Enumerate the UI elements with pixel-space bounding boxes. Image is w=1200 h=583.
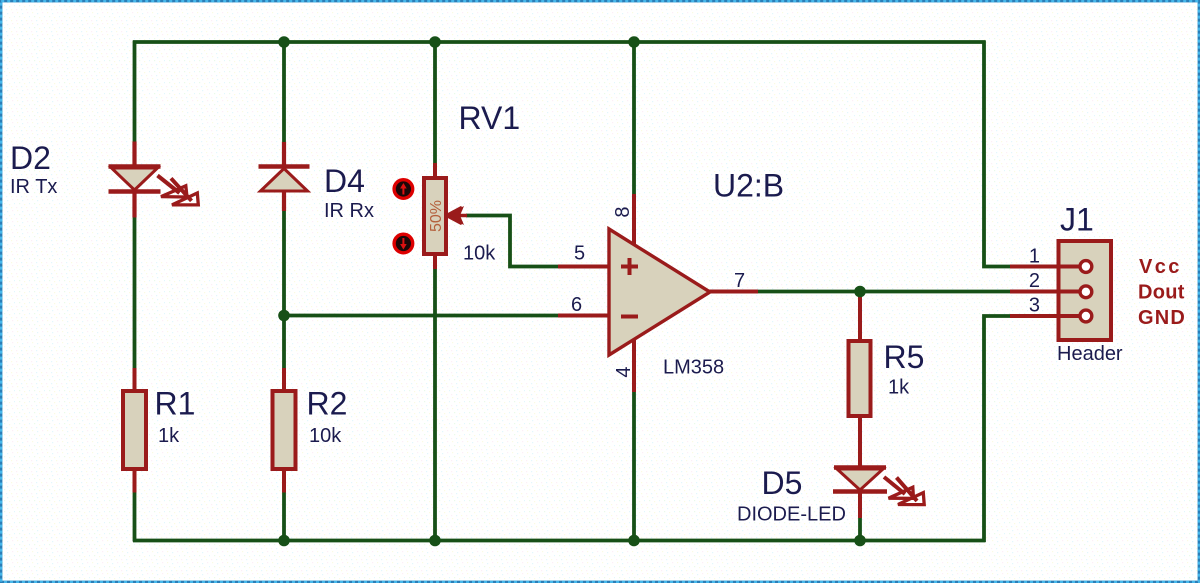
wire: RV1 column <box>433 42 437 541</box>
RV1 decrement button <box>394 234 413 253</box>
potentiometer RV1 <box>424 178 446 254</box>
wire: D4/R2 column <box>282 42 286 541</box>
svg-text:D4: D4 <box>324 163 365 199</box>
wire: op-amp pin 4 red stub <box>632 338 636 392</box>
svg-text:U2:B: U2:B <box>713 168 784 204</box>
wire: top supply rail <box>133 40 986 44</box>
svg-text:J1: J1 <box>1060 202 1094 238</box>
svg-text:8: 8 <box>612 206 634 217</box>
svg-text:R2: R2 <box>307 386 348 422</box>
LED D2 (IR Tx) <box>109 167 199 205</box>
svg-text:1: 1 <box>1029 246 1040 268</box>
svg-text:D2: D2 <box>10 140 51 176</box>
wire: RV1 wiper to pin 5 <box>466 216 560 267</box>
svg-text:6: 6 <box>571 294 582 316</box>
header J1 <box>1058 241 1111 340</box>
wire: header pin 3 red stub <box>1010 314 1060 318</box>
wire: header pin 2 red stub <box>1010 290 1060 294</box>
resistor R1 <box>123 391 146 469</box>
svg-text:RV1: RV1 <box>459 100 521 136</box>
RV1 wiper arrow <box>446 206 467 225</box>
svg-text:GND: GND <box>1138 307 1186 329</box>
svg-text:IR Tx: IR Tx <box>10 176 57 198</box>
wire: R1 red pin stubs <box>133 368 137 493</box>
resistor R5 <box>849 341 871 416</box>
svg-text:7: 7 <box>734 270 745 292</box>
node: top rail / D4 column <box>278 36 290 48</box>
wire: D2 red pin stubs <box>132 142 136 218</box>
wire: right rail upper segment (Vcc) <box>984 41 1010 267</box>
node: top rail / RV1 column <box>429 36 441 48</box>
svg-text:50%: 50% <box>428 200 445 232</box>
wire: D5 bottom red stub <box>858 491 862 518</box>
node: bottom rail / R2 column <box>278 535 290 547</box>
resistor R2 <box>273 391 296 469</box>
svg-text:Vcc: Vcc <box>1139 256 1182 278</box>
LED D5 (DIODE-LED) <box>833 468 924 505</box>
op-amp U2:B <box>609 229 710 355</box>
node: bottom rail / RV1 column <box>429 535 441 547</box>
svg-text:R5: R5 <box>884 339 925 375</box>
svg-text:1k: 1k <box>888 377 910 399</box>
wire: op-amp pin8/pin4 column <box>632 42 636 541</box>
svg-text:5: 5 <box>574 243 585 265</box>
wire: op-amp pin 8 red stub <box>632 194 636 246</box>
wire: op-amp output red stub (pin 7) <box>709 290 758 294</box>
svg-text:DIODE-LED: DIODE-LED <box>737 504 846 526</box>
wire: R2 red pin stubs <box>282 368 286 493</box>
node: output / R5 branch <box>854 286 866 298</box>
svg-text:LM358: LM358 <box>663 357 724 379</box>
node: bottom rail / op-amp column <box>628 535 640 547</box>
wire: op-amp pin 5 red stub <box>558 265 610 269</box>
svg-text:IR Rx: IR Rx <box>324 200 374 222</box>
wire: left column (D2/R1 branch) <box>133 41 137 542</box>
wire: RV1 red pin stubs <box>433 163 437 269</box>
wire: R5 top red stub <box>858 293 862 341</box>
svg-text:10k: 10k <box>309 425 342 447</box>
svg-text:4: 4 <box>613 366 635 377</box>
wire: header pin 1 red stub <box>1010 265 1060 269</box>
wire: inverting input (pin 6) to D4/R2 node <box>284 314 560 318</box>
node: pin 6 / D4-R2 column <box>278 310 290 322</box>
svg-text:D5: D5 <box>762 465 803 501</box>
wire: D4 red pin stubs <box>282 142 286 211</box>
node: top rail / op-amp column <box>628 36 640 48</box>
RV1 increment button <box>394 180 413 199</box>
wire: op-amp pin 6 red stub <box>558 314 610 318</box>
node: bottom rail / D5 column <box>854 535 866 547</box>
svg-text:10k: 10k <box>463 243 496 265</box>
svg-text:3: 3 <box>1029 295 1040 317</box>
diode D4 (IR Rx) <box>259 167 310 192</box>
wire: right rail lower segment (GND) <box>984 316 1010 542</box>
svg-text:R1: R1 <box>155 386 196 422</box>
wire: op-amp output to header pin2 <box>758 290 1010 294</box>
wire: bottom ground rail <box>133 539 986 543</box>
svg-text:1k: 1k <box>158 425 180 447</box>
svg-text:Dout: Dout <box>1138 282 1185 304</box>
wire: R5/D5 branch <box>858 292 862 541</box>
wire: R5 bottom to D5 red stub <box>858 416 862 468</box>
svg-text:Header: Header <box>1057 343 1123 365</box>
svg-text:2: 2 <box>1029 270 1040 292</box>
